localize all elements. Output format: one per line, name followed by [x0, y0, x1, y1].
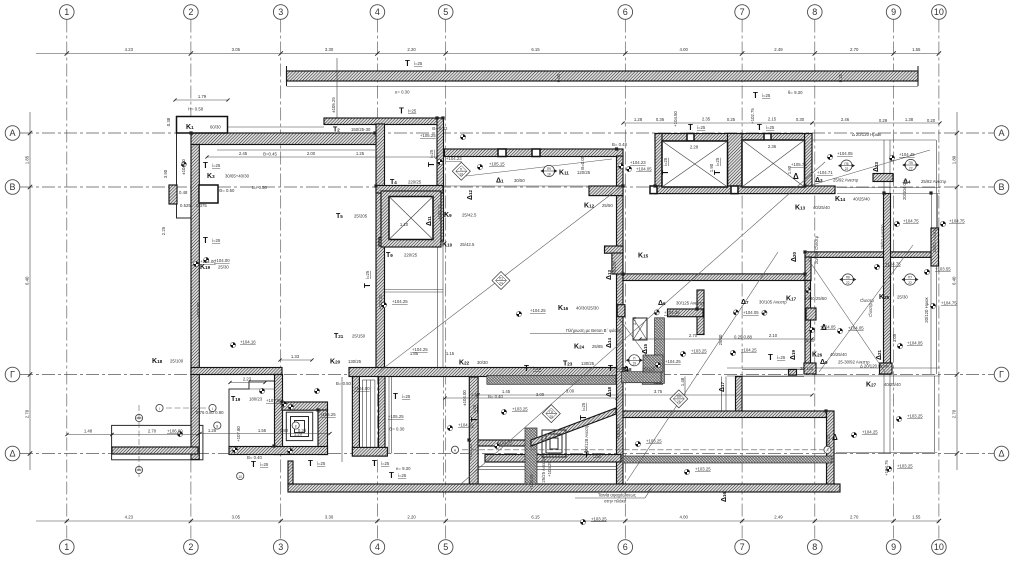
- benchmark point 11: [516, 311, 521, 316]
- benchmark point 37: [684, 469, 689, 474]
- svg-text:Πλ: Πλ: [549, 410, 553, 414]
- gamma pier right a: [804, 363, 816, 374]
- small crossed duct: [633, 318, 647, 340]
- stair2 south wall: [352, 447, 387, 456]
- axis bubble Δ left: [5, 446, 20, 461]
- wall delta17 stub: [736, 377, 743, 412]
- wall left wing west: [191, 145, 199, 460]
- svg-text:5: 5: [443, 542, 448, 552]
- svg-text:Δ3: Δ3: [815, 177, 823, 184]
- junction 6: [653, 184, 656, 187]
- svg-text:T: T: [757, 123, 762, 132]
- svg-text:1.45: 1.45: [502, 389, 511, 394]
- beam mark T 10: [608, 364, 626, 373]
- svg-text:2.70: 2.70: [850, 515, 859, 520]
- svg-text:T: T: [203, 236, 208, 245]
- svg-text:25/92 Ανεστρ: 25/92 Ανεστρ: [833, 178, 859, 183]
- svg-text:19: 19: [633, 362, 637, 366]
- axis bubble Δ right: [994, 446, 1009, 461]
- junction 8: [803, 250, 806, 253]
- wall L above strip cap: [605, 246, 624, 253]
- grid line 8: [814, 20, 816, 540]
- svg-text:T: T: [363, 283, 372, 288]
- svg-text:0.60: 0.60: [556, 73, 561, 82]
- grid line 3: [280, 20, 282, 540]
- top retaining wall strip: [287, 66, 919, 87]
- svg-text:2.00: 2.00: [307, 151, 316, 156]
- svg-text:Δ: Δ: [9, 448, 15, 458]
- axis bubble Γ left: [5, 367, 20, 382]
- svg-text:+107.90: +107.90: [266, 398, 282, 403]
- axis circle minus a: [135, 414, 142, 421]
- dim group 8: [65, 429, 113, 437]
- svg-text:1: 1: [64, 7, 69, 17]
- svg-text:25/125: 25/125: [612, 261, 617, 275]
- beam mark T 1: [203, 161, 221, 170]
- beton band below gamma: [487, 376, 616, 385]
- grid line Γ: [20, 374, 994, 376]
- svg-text:25/205: 25/205: [354, 214, 368, 219]
- svg-text:3.30: 3.30: [325, 47, 334, 52]
- svg-text:T4: T4: [390, 179, 397, 186]
- wall connector rw: [805, 257, 811, 281]
- svg-text:στην πλάκα: στην πλάκα: [604, 499, 627, 504]
- svg-text:B= 0.48: B= 0.48: [612, 142, 628, 147]
- benchmark point 31: [851, 432, 856, 437]
- wall corridor north: [445, 149, 624, 157]
- stairwell east wall: [318, 410, 328, 455]
- svg-text:20/120 Ημιακ: 20/120 Ημιακ: [924, 296, 929, 322]
- axis bubble 4 top: [370, 5, 385, 20]
- svg-text:25/42.5: 25/42.5: [462, 213, 477, 218]
- svg-text:6: 6: [623, 7, 628, 17]
- benchmark point 2: [193, 261, 198, 266]
- platform outline: [112, 425, 203, 459]
- wall strip right of hall: [623, 274, 810, 281]
- svg-text:22: 22: [908, 281, 912, 285]
- section diagonal D6: [808, 259, 885, 372]
- svg-text:0.25 0.88: 0.25 0.88: [734, 335, 753, 340]
- section line A-A: [451, 446, 831, 453]
- svg-text:0.525: 0.525: [180, 203, 191, 208]
- column row B a: [650, 186, 657, 194]
- svg-text:25/100: 25/100: [170, 359, 184, 364]
- svg-text:40/30/25/30: 40/30/25/30: [576, 306, 599, 311]
- benchmark point 8: [288, 404, 293, 409]
- grid line 7: [741, 20, 743, 540]
- svg-text:+104.05: +104.05: [743, 310, 759, 315]
- svg-text:K25: K25: [879, 294, 890, 301]
- leader right wing top: [812, 150, 930, 185]
- axis bubble 2 top: [184, 5, 199, 20]
- bubble small 19: [626, 355, 643, 366]
- svg-text:Δ6: Δ6: [658, 300, 666, 307]
- shaft lift west: [662, 141, 728, 187]
- svg-text:2: 2: [188, 7, 193, 17]
- svg-text:T: T: [427, 162, 436, 167]
- svg-text:ί=25: ί=25: [429, 149, 434, 158]
- axis bubble Α left: [5, 126, 20, 141]
- svg-text:0.29: 0.29: [879, 118, 888, 123]
- svg-text:K14: K14: [835, 196, 846, 203]
- stair lobby west wall: [275, 375, 283, 455]
- beton band D15 vertical: [655, 318, 665, 384]
- stair lobby south wall: [229, 447, 328, 455]
- svg-text:6.15: 6.15: [531, 47, 540, 52]
- svg-text:0.30: 0.30: [298, 428, 307, 433]
- svg-text:Θ= 0.42: Θ= 0.42: [432, 126, 448, 131]
- svg-text:25/92 Ανεστρ: 25/92 Ανεστρ: [880, 224, 885, 250]
- svg-text:6: 6: [623, 542, 628, 552]
- top dimension line: [36, 47, 941, 56]
- ramp band: [531, 408, 616, 446]
- svg-text:Δ21: Δ21: [876, 349, 883, 360]
- svg-text:ί=25: ί=25: [381, 461, 390, 466]
- svg-text:T: T: [608, 364, 613, 373]
- wall shaft west: [655, 134, 662, 194]
- wall T4 right: [437, 118, 444, 241]
- T9 room lines: [377, 290, 443, 293]
- svg-text:30/128 Ανεστρ: 30/128 Ανεστρ: [584, 424, 589, 452]
- junction 17: [882, 191, 885, 194]
- benchmark point 14: [437, 159, 442, 164]
- label T5: [336, 213, 368, 220]
- wall row B under shafts: [655, 186, 835, 194]
- svg-text:+104.25: +104.25: [741, 348, 757, 353]
- svg-text:1.10: 1.10: [400, 222, 409, 227]
- svg-text:40/25/40: 40/25/40: [813, 205, 830, 210]
- diamond P9/25: [670, 390, 688, 408]
- svg-text:B= 0.40: B= 0.40: [488, 394, 504, 399]
- svg-text:2.45: 2.45: [239, 151, 248, 156]
- junction 16: [272, 444, 275, 447]
- benchmark point 12: [477, 164, 482, 169]
- wall gamma left: [191, 368, 282, 375]
- wall between shafts: [728, 134, 743, 194]
- beam D6 vertical: [697, 290, 704, 335]
- svg-text:T: T: [393, 392, 398, 401]
- svg-text:+104.05: +104.05: [636, 167, 652, 172]
- benchmark point 7: [232, 447, 237, 452]
- axis bubble Β left: [5, 180, 20, 195]
- benchmark point 13: [460, 134, 465, 139]
- svg-text:1.25: 1.25: [356, 151, 365, 156]
- svg-text:Θ= 0.30: Θ= 0.30: [389, 427, 405, 432]
- benchmark point 29: [730, 350, 735, 355]
- label T2: [333, 127, 371, 134]
- beam mark T 7: [251, 460, 269, 469]
- wall bottom left vertical: [469, 377, 478, 484]
- svg-text:25/82 Ανεστρ: 25/82 Ανεστρ: [932, 227, 937, 253]
- benchmark point 24: [897, 343, 902, 348]
- beam mark T 4: [688, 123, 706, 132]
- svg-text:T: T: [251, 460, 256, 469]
- svg-text:+104.71: +104.71: [817, 170, 833, 175]
- svg-text:K9: K9: [444, 212, 452, 219]
- label K12: [584, 203, 613, 210]
- beam mark T 13: [470, 404, 479, 422]
- svg-text:Δ9: Δ9: [820, 359, 828, 366]
- svg-text:K3: K3: [207, 173, 215, 180]
- svg-text:Δ19: Δ19: [790, 349, 797, 360]
- svg-text:B= 0.40: B= 0.40: [247, 455, 263, 460]
- svg-text:Δ11: Δ11: [426, 216, 433, 226]
- label K25: [879, 294, 908, 301]
- svg-text:ί=25: ί=25: [472, 404, 477, 413]
- svg-text:Δ15: Δ15: [642, 343, 649, 354]
- wall rw middle vertical: [884, 194, 891, 375]
- svg-text:40/30/25/50: 40/30/25/50: [804, 296, 827, 301]
- svg-text:ί=25: ί=25: [581, 402, 586, 411]
- wall shafts north: [655, 134, 812, 142]
- svg-text:1.75: 1.75: [632, 316, 637, 325]
- svg-text:+104.45: +104.45: [899, 152, 915, 157]
- junction 4: [615, 147, 618, 150]
- svg-text:Ƈνεστρ: Ƈνεστρ: [868, 302, 873, 317]
- svg-text:K20: K20: [330, 359, 341, 366]
- label K16: [558, 305, 599, 312]
- label K26: [812, 352, 847, 359]
- svg-text:ί=25: ί=25: [715, 157, 720, 166]
- strip beam label T: [405, 59, 423, 68]
- axis bubble 6 top: [618, 5, 633, 20]
- section diagonal D2: [461, 162, 825, 484]
- benchmark point 35: [494, 443, 499, 448]
- svg-text:Ƈνεστρ: Ƈνεστρ: [860, 298, 875, 303]
- axis bubble 5 bottom: [438, 540, 453, 555]
- svg-text:2.23: 2.23: [243, 377, 252, 382]
- svg-text:0.80: 0.80: [280, 428, 289, 433]
- svg-text:e= 0.30: e= 0.30: [395, 90, 410, 95]
- junction 18: [929, 191, 932, 194]
- svg-text:+103.25: +103.25: [907, 414, 923, 419]
- svg-text:Α: Α: [9, 128, 15, 138]
- svg-text:25/30: 25/30: [218, 265, 229, 270]
- svg-text:ί=25: ί=25: [533, 366, 542, 371]
- junction 20: [803, 272, 806, 275]
- svg-text:+104.23: +104.23: [446, 156, 462, 161]
- grid line 5: [445, 20, 447, 540]
- wall V1 below gamma: [379, 375, 386, 457]
- svg-text:+103.25: +103.25: [616, 424, 621, 440]
- svg-text:2.20: 2.20: [407, 515, 416, 520]
- svg-text:2.15: 2.15: [768, 117, 777, 122]
- axis bubble 1 top: [60, 5, 75, 20]
- svg-text:2.10: 2.10: [769, 333, 778, 338]
- axis circle 10: [237, 472, 244, 479]
- svg-text:ί=25: ί=25: [766, 125, 775, 130]
- svg-text:Δ: Δ: [793, 172, 799, 181]
- axis bubble Γ right: [994, 367, 1009, 382]
- wall T2 top: [324, 118, 443, 125]
- axis line x443: [443, 375, 445, 501]
- svg-text:20/104 Ƈμ: 20/104 Ƈμ: [902, 180, 907, 200]
- beam mark T 5: [757, 123, 775, 132]
- benchmark point 43: [806, 288, 811, 293]
- svg-text:Δ 20/120 Ημιακ: Δ 20/120 Ημιακ: [860, 364, 890, 369]
- svg-text:+104.05: +104.05: [907, 341, 923, 346]
- svg-text:T: T: [713, 170, 722, 175]
- bottom strip: [288, 484, 840, 492]
- svg-text:2.70: 2.70: [148, 429, 157, 434]
- wall strip right wing: [805, 252, 935, 258]
- grid line 6: [624, 20, 626, 540]
- svg-text:2.28: 2.28: [690, 145, 699, 150]
- svg-text:3.90: 3.90: [163, 169, 168, 178]
- bubble P8/22: [839, 274, 856, 285]
- beton band D15 foot: [622, 372, 662, 383]
- benchmark point 32: [886, 466, 891, 471]
- svg-text:Π9: Π9: [677, 395, 681, 399]
- junction 15: [316, 408, 319, 411]
- wall gamma middle: [349, 368, 628, 377]
- svg-text:Α: Α: [998, 128, 1004, 138]
- svg-text:4.23: 4.23: [125, 47, 134, 52]
- benchmark point 44: [204, 257, 209, 262]
- svg-text:Δ: Δ: [832, 433, 838, 442]
- svg-text:1.38: 1.38: [905, 117, 914, 122]
- axis circle 8 b: [292, 422, 299, 429]
- svg-text:2.49: 2.49: [774, 47, 783, 52]
- svg-text:0.76 0.60 0.90: 0.76 0.60 0.90: [196, 410, 224, 415]
- svg-text:T: T: [405, 59, 410, 68]
- svg-text:H= 0.58: H= 0.58: [188, 107, 204, 112]
- svg-text:4.23: 4.23: [125, 515, 134, 520]
- benchmark point 22: [924, 269, 929, 274]
- beton band below gamma b: [642, 374, 663, 384]
- wall L above strip: [612, 253, 623, 274]
- junction 3: [435, 116, 438, 119]
- svg-text:25/50: 25/50: [602, 203, 613, 208]
- gamma thin pair right: [742, 369, 804, 376]
- dim group 5: [638, 333, 813, 341]
- svg-text:130/25: 130/25: [348, 359, 362, 364]
- svg-text:T: T: [389, 471, 394, 480]
- section diagonal D5: [819, 245, 913, 372]
- T mark room: [393, 392, 411, 401]
- benchmark point 41: [733, 310, 738, 315]
- beton band D8 block: [643, 355, 663, 372]
- svg-text:6.40: 6.40: [25, 276, 30, 285]
- svg-text:9: 9: [891, 7, 896, 17]
- svg-text:4: 4: [375, 7, 380, 17]
- label T9: [386, 252, 418, 259]
- svg-text:T: T: [372, 459, 377, 468]
- dim group 3: [621, 117, 813, 125]
- svg-text:Π1: Π1: [499, 277, 503, 281]
- svg-text:T: T: [399, 107, 404, 116]
- svg-text:+103.25: +103.25: [691, 349, 707, 354]
- svg-text:3.75: 3.75: [654, 389, 663, 394]
- svg-text:3: 3: [278, 542, 283, 552]
- beton band bottom right: [623, 456, 832, 463]
- benchmark point 5: [281, 401, 286, 406]
- svg-text:20/700 Ƈνεστρ: 20/700 Ƈνεστρ: [814, 235, 819, 264]
- junction 9: [621, 272, 624, 275]
- label Δ8: [624, 366, 656, 373]
- svg-text:T: T: [524, 364, 529, 373]
- svg-text:4.00: 4.00: [680, 515, 689, 520]
- benchmark point 16: [626, 166, 631, 171]
- svg-text:+104.16: +104.16: [240, 340, 256, 345]
- svg-text:T: T: [661, 170, 670, 175]
- wall long vertical mid: [617, 156, 624, 484]
- svg-text:+103.25: +103.25: [529, 474, 534, 490]
- svg-text:1.85: 1.85: [25, 155, 30, 164]
- wall corridor south stub: [589, 186, 623, 196]
- axis circle I b: [209, 404, 216, 411]
- axis bubble 8 top: [808, 5, 823, 20]
- stair2 west wall: [352, 375, 359, 456]
- svg-text:T23: T23: [563, 361, 573, 368]
- dim group 10: [278, 354, 313, 362]
- dim group 11: [228, 377, 266, 385]
- svg-text:25/30: 25/30: [897, 295, 908, 300]
- label Δ7: [741, 299, 787, 306]
- svg-text:±105.25: ±105.25: [331, 97, 336, 113]
- svg-text:T: T: [470, 417, 479, 422]
- svg-text:6.30: 6.30: [806, 338, 815, 343]
- svg-text:25/30: 25/30: [718, 334, 723, 345]
- stair lobby north wall: [282, 402, 328, 410]
- underline tainia: [575, 487, 652, 498]
- svg-text:25/42.5: 25/42.5: [460, 242, 475, 247]
- svg-text:30/50: 30/50: [514, 178, 525, 183]
- benchmark point 26: [837, 328, 842, 333]
- svg-text:ί=25: ί=25: [697, 125, 706, 130]
- svg-text:Π.: Π.: [460, 167, 463, 171]
- svg-text:25/150: 25/150: [352, 334, 366, 339]
- wall bottom right: [623, 411, 832, 418]
- svg-text:K18: K18: [152, 358, 163, 365]
- svg-text:+103.25: +103.25: [512, 407, 528, 412]
- column row B b: [731, 186, 738, 194]
- svg-text:ί=25: ί=25: [663, 157, 668, 166]
- svg-text:ί=25: ί=25: [762, 93, 771, 98]
- junction 12: [280, 400, 283, 403]
- benchmark point 6: [259, 388, 264, 393]
- corridor line x342: [341, 377, 343, 462]
- svg-text:Δ23: Δ23: [873, 161, 880, 172]
- svg-text:25: 25: [550, 415, 554, 419]
- axis circle 8 a: [214, 422, 221, 429]
- strip beam label T lower: [753, 91, 771, 100]
- svg-text:1.90: 1.90: [709, 163, 714, 172]
- svg-text:+104.05: +104.05: [837, 151, 853, 156]
- svg-text:7: 7: [740, 7, 745, 17]
- benchmark point 42: [762, 310, 767, 315]
- svg-text:+104.25: +104.25: [392, 299, 408, 304]
- dim group 4: [810, 117, 941, 125]
- svg-text:1.79: 1.79: [198, 94, 207, 99]
- svg-text:1.55: 1.55: [258, 428, 267, 433]
- svg-text:4.00: 4.00: [680, 47, 689, 52]
- svg-text:K24: K24: [574, 344, 585, 351]
- svg-text:3.30: 3.30: [325, 515, 334, 520]
- svg-text:1.26: 1.26: [208, 428, 217, 433]
- svg-text:0.20: 0.20: [927, 118, 936, 123]
- axis bubble 7 top: [735, 5, 750, 20]
- svg-text:ί=25: ί=25: [593, 453, 602, 458]
- svg-text:24: 24: [499, 282, 503, 286]
- grid line 10: [938, 20, 940, 540]
- svg-text:Δ20: Δ20: [791, 251, 798, 262]
- benchmark point 34: [447, 425, 452, 430]
- svg-text:1.45: 1.45: [471, 392, 480, 397]
- junction 14: [441, 116, 444, 119]
- axis bubble Β right: [994, 180, 1009, 195]
- svg-text:Π6: Π6: [844, 162, 848, 166]
